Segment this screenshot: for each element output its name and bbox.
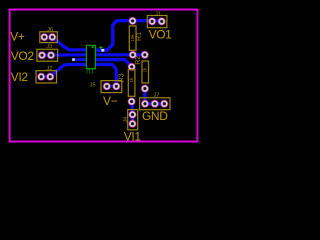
connector J1 [147, 11, 167, 27]
resistor R1 [129, 17, 144, 59]
svg-text:1k: 1k [129, 77, 134, 83]
svg-text:V−: V− [103, 94, 118, 108]
svg-text:J7: J7 [154, 92, 160, 98]
via A [72, 58, 75, 61]
svg-text:VO2: VO2 [11, 49, 35, 63]
via B (pin1 net) [101, 49, 104, 52]
svg-text:J2: J2 [47, 66, 53, 72]
connector J2 [36, 66, 57, 83]
wire stub via to U1 pin3 left [74, 58, 87, 61]
svg-text:R2: R2 [135, 56, 142, 65]
wire net VI2 : J2 to U1 pin4 left [41, 65, 87, 77]
board outline border [10, 10, 198, 142]
svg-text:GND: GND [142, 109, 168, 123]
op-amp U1 [86, 45, 103, 73]
svg-text:J3: J3 [46, 44, 52, 50]
wire net mid : U1 pin2 right through R1 bottom to R2 top [95, 53, 145, 56]
wire net V- : U1 pin4 right to J5 [95, 65, 116, 87]
wire net VI1 : R3 bottom to J4 pads [130, 102, 134, 124]
wire net : U1 pin3 right to R3 top [95, 60, 132, 67]
svg-text:R1: R1 [136, 32, 143, 41]
connector J6 [40, 27, 58, 43]
svg-text:J5: J5 [90, 83, 96, 89]
svg-text:VI1: VI1 [124, 130, 142, 144]
wire net VO1 : U1 pin1 right to R1 top and J1 [95, 21, 162, 51]
connector J4 [123, 110, 138, 130]
resistor R2 [135, 51, 149, 93]
svg-text:R3: R3 [119, 73, 126, 82]
svg-text:J1: J1 [155, 11, 161, 17]
wire net GND : R2 bottom to J7 pads [145, 89, 165, 104]
svg-text:VO1: VO1 [149, 28, 173, 42]
svg-text:J6: J6 [47, 27, 53, 33]
connector J5 [90, 81, 122, 93]
svg-text:V+: V+ [10, 30, 25, 44]
svg-text:15k: 15k [130, 34, 135, 42]
connector J3 [37, 44, 58, 61]
svg-text:U1: U1 [86, 67, 94, 73]
svg-text:1k: 1k [142, 67, 147, 73]
resistor R3 [119, 63, 136, 106]
wire J5 interpad [107, 85, 117, 88]
svg-text:VI2: VI2 [11, 70, 29, 84]
svg-text:J4: J4 [123, 117, 129, 123]
wire net V+ : J6 to U1 pin1 left [44, 37, 87, 50]
connector J7 [140, 92, 170, 109]
wire net VO2 : J3 to U1 pin2 left [42, 53, 87, 57]
